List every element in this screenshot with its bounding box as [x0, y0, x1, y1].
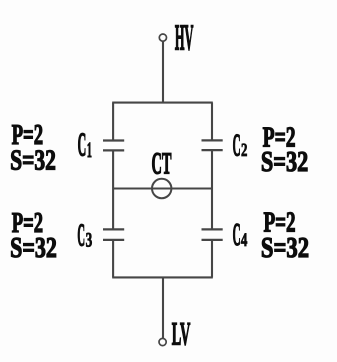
svg-text:C: C [77, 219, 85, 253]
svg-text:4: 4 [241, 231, 248, 251]
svg-text:C: C [78, 128, 87, 164]
svg-text:HV: HV [175, 20, 194, 59]
svg-text:LV: LV [172, 318, 191, 353]
svg-text:S=32: S=32 [261, 147, 308, 178]
svg-text:3: 3 [86, 230, 93, 252]
svg-text:S=32: S=32 [10, 234, 57, 265]
svg-text:S=32: S=32 [10, 146, 56, 177]
svg-text:S=32: S=32 [261, 233, 309, 264]
svg-text:C: C [233, 130, 241, 164]
svg-text:CT: CT [152, 148, 172, 181]
svg-text:2: 2 [241, 141, 247, 161]
svg-text:C: C [233, 219, 241, 253]
svg-text:1: 1 [87, 139, 92, 162]
